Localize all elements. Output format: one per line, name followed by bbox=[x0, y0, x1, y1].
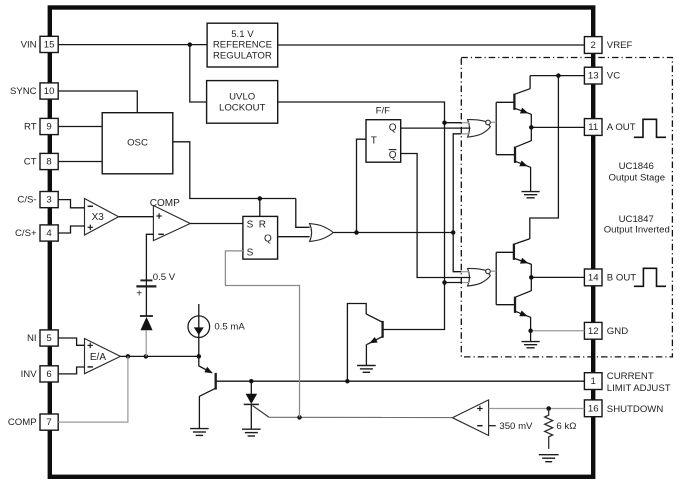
svg-text:LOCKOUT: LOCKOUT bbox=[219, 103, 266, 114]
wire NOR B bases rail bbox=[491, 252, 497, 304]
node clock/R junction bbox=[258, 196, 263, 201]
svg-text:NI: NI bbox=[27, 333, 37, 344]
wire UVLO rail to NOR A top input bbox=[445, 122, 470, 124]
svg-text:3: 3 bbox=[46, 195, 51, 206]
pin 16 (SHUTDOWN) box bbox=[584, 400, 602, 417]
wire CT to OSC bbox=[58, 161, 102, 163]
pin 1 (CURRENT LIMIT ADJUST) box bbox=[584, 373, 602, 390]
svg-text:6 kΩ: 6 kΩ bbox=[556, 421, 576, 432]
wire X3 output to comparator + input bbox=[119, 216, 154, 218]
NOR gate B drive bbox=[468, 268, 491, 286]
wire F/F Q output to NOR A bbox=[401, 127, 471, 129]
pin 11 (A OUT) box bbox=[584, 119, 602, 136]
svg-text:S: S bbox=[247, 248, 254, 259]
ground (SCR cathode) bbox=[242, 429, 261, 436]
wire UVLO output rail to NOR gates and current limit transistor bbox=[278, 102, 447, 330]
OR gate U5 bbox=[310, 224, 334, 242]
wire UVLO rail to NOR B bottom input bbox=[445, 282, 470, 284]
pin 7 (COMP) box bbox=[40, 414, 58, 430]
ground (6k resistor) bbox=[539, 455, 559, 462]
wire F/F T input to PWM line bbox=[357, 139, 367, 232]
wire shutdown comparator output line bbox=[269, 415, 452, 420]
wire VC rail down to B stage bbox=[530, 76, 559, 239]
svg-text:15: 15 bbox=[44, 40, 55, 51]
svg-text:1: 1 bbox=[591, 376, 596, 387]
wire VIN to reference regulator bbox=[58, 42, 207, 47]
wire reference regulator output to VREF pin 2 bbox=[278, 44, 585, 46]
svg-text:COMP: COMP bbox=[8, 417, 37, 428]
svg-text:VIN: VIN bbox=[21, 40, 37, 51]
wire comparator - input to 0.5V reference bbox=[146, 234, 153, 280]
svg-text:T: T bbox=[371, 136, 377, 147]
svg-text:SHUTDOWN: SHUTDOWN bbox=[607, 404, 664, 415]
output stage dash-dot boundary bbox=[461, 58, 672, 357]
wire NOR A bases rail bbox=[491, 102, 497, 154]
ground (A stage emitter) bbox=[522, 192, 540, 198]
wire PWM line vertical to NOR inputs bbox=[453, 134, 461, 272]
UVLO lockout block U2 bbox=[207, 81, 278, 124]
shutdown comparator 350mV bbox=[452, 400, 488, 436]
pin 3 (C/S-) box bbox=[40, 192, 58, 208]
pin 2 (VREF) box bbox=[584, 37, 602, 54]
wire VIN junction down to UVLO input bbox=[190, 45, 207, 102]
wire NI pin 5 to E/A + input bbox=[58, 338, 84, 345]
wire latch bottom S input from shutdown bbox=[225, 251, 299, 418]
wire shutdown comparator + input to pin 16 bbox=[489, 406, 585, 411]
wire OSC clock output bbox=[173, 142, 296, 199]
ground (Q1 collector) bbox=[190, 429, 209, 436]
resistor R1 6k bbox=[545, 409, 577, 449]
svg-text:7: 7 bbox=[46, 417, 51, 428]
pin 13 (VC) box bbox=[584, 67, 602, 84]
svg-text:Q: Q bbox=[264, 233, 272, 244]
PWM comparator COMP bbox=[150, 198, 190, 240]
error amplifier E/A bbox=[85, 339, 121, 374]
pin 10 (SYNC) box bbox=[40, 83, 58, 99]
waveform A OUT bbox=[634, 119, 666, 137]
svg-text:A OUT: A OUT bbox=[607, 122, 636, 133]
diode D1 (E/A clamp) bbox=[140, 316, 153, 330]
svg-text:UC1847: UC1847 bbox=[619, 214, 654, 225]
wire COMP pin 7 feedback to E/A output bbox=[58, 356, 128, 422]
SCR shutdown latch bbox=[244, 381, 269, 429]
svg-text:350 mV: 350 mV bbox=[499, 421, 533, 432]
transistor Q6 (B low side) bbox=[496, 277, 531, 341]
pin 4 (C/S+) box bbox=[40, 225, 58, 241]
wire INV pin 6 to E/A - input bbox=[58, 367, 84, 374]
wire F/F Qbar output to NOR B bbox=[401, 154, 471, 278]
transistor Q3 (A high side) bbox=[496, 76, 531, 128]
wire SYNC to OSC bbox=[58, 91, 137, 113]
waveform B OUT bbox=[634, 268, 666, 286]
svg-text:OSC: OSC bbox=[127, 138, 148, 149]
PWM latch U3 bbox=[243, 216, 278, 259]
pin label CURRENT LIMIT ADJUST bbox=[607, 371, 671, 394]
battery 0.5 V reference bbox=[136, 272, 176, 300]
ground (Q2 emitter) bbox=[357, 366, 376, 373]
wire C/S+ pin 4 to X3 non-inverting input bbox=[58, 226, 84, 233]
svg-text:14: 14 bbox=[588, 273, 599, 284]
350 mV label with stub bbox=[489, 421, 533, 432]
wire VC pin 13 to output stage bbox=[530, 73, 584, 78]
svg-text:S: S bbox=[247, 220, 254, 231]
wire clock to latch R input bbox=[259, 199, 261, 217]
svg-text:UC1846: UC1846 bbox=[619, 161, 654, 172]
svg-text:CURRENT: CURRENT bbox=[607, 371, 654, 382]
svg-text:X3: X3 bbox=[92, 212, 105, 223]
svg-text:C/S+: C/S+ bbox=[15, 228, 37, 239]
oscillator block OSC bbox=[102, 113, 173, 174]
ground (B stage emitter) bbox=[522, 342, 540, 348]
wire PWM stub into NOR B bbox=[461, 271, 469, 273]
pin 8 (CT) box bbox=[40, 153, 58, 169]
wire comparator output to latch S input bbox=[190, 223, 243, 225]
svg-text:LIMIT ADJUST: LIMIT ADJUST bbox=[607, 383, 671, 394]
svg-text:16: 16 bbox=[588, 403, 599, 414]
svg-text:SYNC: SYNC bbox=[10, 86, 37, 97]
svg-text:CT: CT bbox=[24, 157, 37, 168]
wire current limit line to pin 1 bbox=[216, 379, 585, 384]
svg-text:6: 6 bbox=[46, 369, 51, 380]
svg-text:10: 10 bbox=[44, 86, 55, 97]
wire battery to diode bbox=[145, 286, 147, 316]
svg-text:INV: INV bbox=[21, 369, 38, 380]
transistor Q1 (PNP clamp) bbox=[199, 356, 216, 428]
svg-text:11: 11 bbox=[588, 122, 598, 133]
svg-text:RT: RT bbox=[24, 122, 37, 133]
svg-text:Q: Q bbox=[389, 150, 397, 161]
svg-text:Q: Q bbox=[389, 123, 397, 134]
wire E/A output line bbox=[120, 354, 201, 359]
svg-text:Output Inverted: Output Inverted bbox=[604, 225, 670, 236]
wire C/S- pin 3 to X3 inverting input bbox=[58, 200, 84, 208]
NOR gate A drive bbox=[468, 120, 491, 138]
svg-text:13: 13 bbox=[588, 71, 599, 82]
transistor Q4 (A low side) bbox=[496, 127, 531, 191]
wire latch Q output to OR gate bbox=[278, 236, 310, 238]
svg-text:12: 12 bbox=[588, 326, 599, 337]
reference regulator block U1 bbox=[207, 23, 278, 67]
svg-text:REFERENCE: REFERENCE bbox=[213, 40, 272, 51]
svg-text:5.1 V: 5.1 V bbox=[231, 29, 254, 40]
label UC1847 Output Inverted bbox=[604, 214, 670, 236]
pin 9 (RT) box bbox=[40, 118, 58, 134]
svg-text:0.5 mA: 0.5 mA bbox=[214, 322, 245, 333]
svg-text:VC: VC bbox=[607, 71, 620, 82]
current sense amplifier X3 bbox=[85, 199, 119, 236]
svg-text:0.5 V: 0.5 V bbox=[153, 272, 176, 283]
svg-text:8: 8 bbox=[46, 157, 51, 168]
svg-text:2: 2 bbox=[591, 40, 596, 51]
pin 6 (INV) box bbox=[40, 366, 58, 382]
wire GND pin 12 bbox=[528, 329, 584, 334]
svg-text:F/F: F/F bbox=[376, 105, 391, 116]
svg-text:4: 4 bbox=[46, 228, 52, 239]
svg-text:UVLO: UVLO bbox=[229, 91, 255, 102]
toggle flip-flop U4 bbox=[366, 105, 401, 162]
pin 15 (VIN) box bbox=[40, 36, 58, 52]
svg-text:5: 5 bbox=[46, 333, 51, 344]
svg-text:E/A: E/A bbox=[90, 352, 106, 363]
svg-text:9: 9 bbox=[46, 122, 51, 133]
transistor Q5 (B high side) bbox=[496, 239, 531, 278]
svg-text:VREF: VREF bbox=[607, 40, 633, 51]
wire PWM stub into NOR A bbox=[461, 133, 469, 135]
svg-text:C/S-: C/S- bbox=[17, 195, 36, 206]
wire diode to E/A output line bbox=[145, 330, 147, 356]
label UC1846 Output Stage bbox=[609, 161, 666, 184]
wire A OUT to pin 11 bbox=[529, 125, 584, 129]
svg-text:R: R bbox=[259, 220, 266, 231]
svg-text:+: + bbox=[136, 288, 142, 299]
current source 0.5 mA bbox=[188, 304, 245, 338]
svg-text:B OUT: B OUT bbox=[607, 273, 636, 284]
wire RT to OSC bbox=[58, 126, 102, 128]
pin 12 (GND) box bbox=[584, 322, 602, 339]
transistor Q2 (current limit, NPN) bbox=[347, 304, 382, 382]
wire B OUT to pin 14 bbox=[529, 275, 584, 280]
svg-text:REGULATOR: REGULATOR bbox=[213, 51, 272, 62]
pin 5 (NI) box bbox=[40, 330, 58, 346]
wire current source to E/A output line bbox=[198, 338, 200, 357]
wire clock to OR gate top input bbox=[296, 199, 310, 228]
svg-text:Output Stage: Output Stage bbox=[609, 172, 666, 183]
chip outer border bbox=[50, 8, 593, 477]
wire OR gate output (PWM line) bbox=[333, 230, 455, 235]
pin 14 (B OUT) box bbox=[584, 269, 602, 286]
svg-text:GND: GND bbox=[607, 326, 628, 337]
